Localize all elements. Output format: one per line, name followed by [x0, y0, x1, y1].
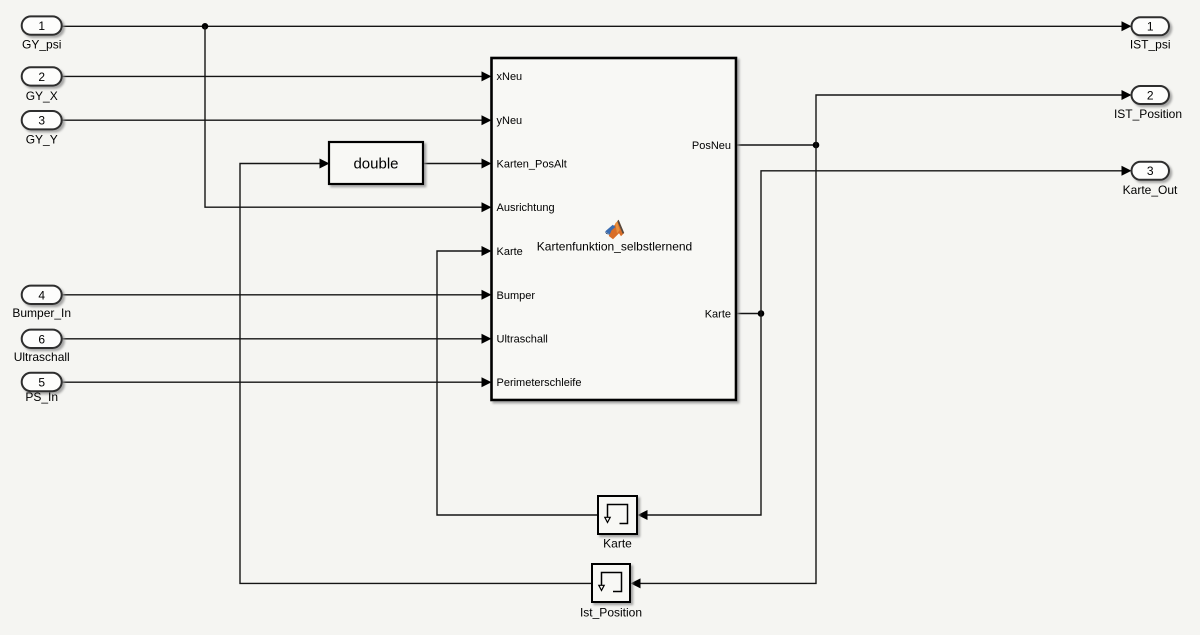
svg-text:Karte: Karte	[705, 309, 731, 321]
block name Kartenfunktion_selbstlernend	[537, 239, 692, 253]
wire J2 down to Ist_Position memory input	[631, 145, 817, 588]
svg-text:Karte: Karte	[497, 246, 523, 258]
svg-text:1: 1	[38, 19, 45, 33]
svg-text:IST_psi: IST_psi	[1130, 38, 1171, 52]
pin label PosNeu	[692, 140, 731, 152]
memory block Ist_Position	[580, 564, 642, 620]
svg-text:PS_In: PS_In	[25, 390, 58, 404]
MATLAB logo	[605, 220, 624, 240]
node junction J3	[758, 310, 765, 317]
svg-text:GY_Y: GY_Y	[26, 133, 58, 147]
svg-text:Ist_Position: Ist_Position	[580, 606, 642, 620]
svg-text:Ausrichtung: Ausrichtung	[497, 202, 555, 214]
svg-text:yNeu: yNeu	[497, 115, 523, 127]
pin label Ausrichtung	[497, 202, 555, 214]
svg-text:Karten_PosAlt: Karten_PosAlt	[497, 159, 567, 171]
svg-text:GY_X: GY_X	[26, 89, 58, 103]
wire J3 down to Karte memory input	[638, 314, 762, 521]
svg-text:Karte: Karte	[603, 537, 632, 551]
pin label Bumper	[497, 290, 536, 302]
svg-text:double: double	[353, 156, 398, 173]
wire J1 to Ausrichtung input	[205, 26, 492, 212]
svg-text:2: 2	[1147, 88, 1154, 102]
svg-text:Kartenfunktion_selbstlernend: Kartenfunktion_selbstlernend	[537, 239, 692, 253]
svg-text:1: 1	[1147, 20, 1154, 34]
memory block Karte	[598, 496, 637, 551]
pin label Karten_PosAlt	[497, 159, 567, 171]
svg-text:Ultraschall: Ultraschall	[14, 350, 70, 364]
wire J2 up to outport IST_Position	[816, 90, 1132, 145]
inport 2 GY_X	[22, 67, 62, 103]
wire Karte output to J3	[736, 313, 761, 315]
wire port3 GY_Y to yNeu input	[62, 115, 492, 125]
inport 3 GY_Y	[22, 111, 62, 147]
inport 6 Ultraschall	[14, 330, 70, 364]
wire port1 GY_psi to outport IST_psi	[62, 21, 1132, 31]
outport 1 IST_psi	[1130, 17, 1171, 51]
wire Ist_Position memory output to double input	[240, 159, 592, 584]
pin label Karte out	[705, 309, 731, 321]
svg-text:IST_Position: IST_Position	[1114, 107, 1182, 121]
svg-text:Perimeterschleife: Perimeterschleife	[497, 377, 582, 389]
svg-text:Bumper_In: Bumper_In	[12, 306, 71, 320]
inport 4 Bumper_In	[12, 286, 71, 320]
wire Karte memory output to Karte input	[437, 246, 598, 515]
svg-text:Karte_Out: Karte_Out	[1123, 183, 1178, 197]
wire J3 up to outport Karte_Out	[761, 166, 1132, 314]
pin label Karte	[497, 246, 523, 258]
svg-text:2: 2	[38, 70, 45, 84]
svg-text:xNeu: xNeu	[497, 71, 523, 83]
inport 1 GY_psi	[22, 16, 62, 51]
pin label yNeu	[497, 115, 523, 127]
svg-text:6: 6	[38, 332, 45, 346]
svg-text:5: 5	[38, 376, 45, 390]
outport 3 Karte_Out	[1123, 162, 1178, 197]
outport 2 IST_Position	[1114, 86, 1182, 121]
node junction J2	[813, 142, 820, 149]
svg-text:GY_psi: GY_psi	[22, 38, 61, 52]
wire double output to Karten_PosAlt input	[423, 159, 492, 169]
wire port6 Ultraschall to Ultraschall input	[62, 334, 492, 344]
pin label Perimeterschleife	[497, 377, 582, 389]
svg-text:Ultraschall: Ultraschall	[497, 334, 548, 346]
svg-text:PosNeu: PosNeu	[692, 140, 731, 152]
data type conversion block double	[329, 142, 423, 184]
wire port2 GY_X to xNeu input	[62, 71, 492, 81]
MATLAB function block U1 Kartenfunktion_selbstlernend	[492, 58, 737, 400]
wire port4 Bumper_In to Bumper input	[62, 290, 492, 300]
wire port5 PS_In to Perimeterschleife input	[62, 377, 492, 387]
inport 5 PS_In	[22, 373, 62, 404]
svg-text:4: 4	[38, 288, 45, 302]
node junction J1	[202, 23, 209, 30]
pin label Ultraschall	[497, 334, 548, 346]
svg-text:3: 3	[38, 114, 45, 128]
svg-text:3: 3	[1147, 164, 1154, 178]
wire PosNeu output to J2	[736, 144, 816, 146]
pin label xNeu	[497, 71, 523, 83]
svg-text:Bumper: Bumper	[497, 290, 536, 302]
